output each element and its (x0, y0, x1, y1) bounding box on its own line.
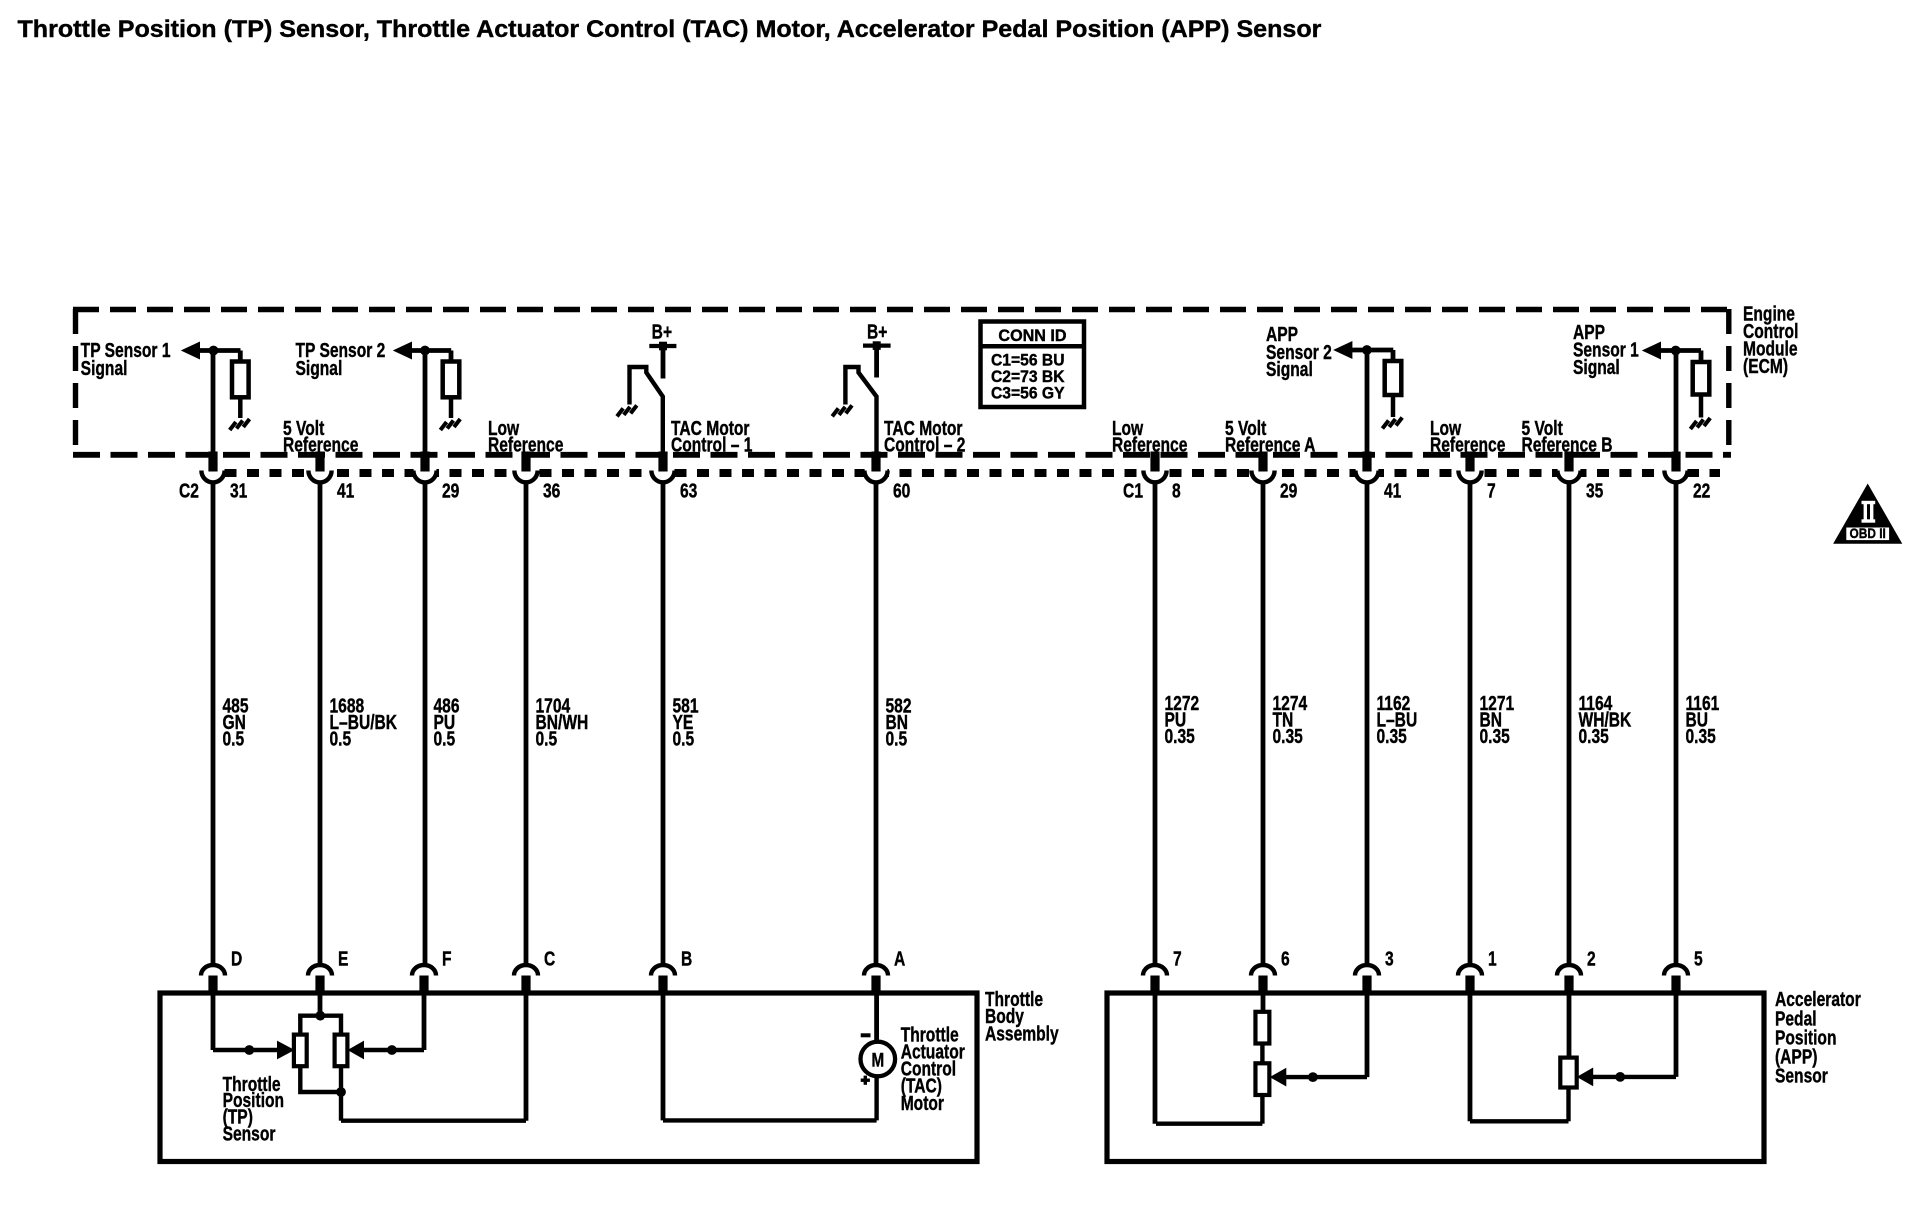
ECM pin 8 connector terminal (1143, 452, 1166, 483)
TP pot wiper arrow left-side (278, 1042, 294, 1059)
ECM net label Low Reference (488, 417, 563, 456)
ECM net label 5 Volt Reference B (1521, 417, 1612, 456)
ground symbol APP2 (1382, 418, 1402, 429)
svg-text:M: M (871, 1049, 884, 1071)
svg-text:C1: C1 (1123, 479, 1143, 501)
svg-text:Throttle Position (TP) Sensor,: Throttle Position (TP) Sensor, Throttle … (18, 17, 1322, 43)
wire from pin 29 down (423, 484, 428, 965)
svg-text:Assembly: Assembly (985, 1022, 1059, 1044)
TP Sensor 1 Signal label (81, 339, 171, 379)
svg-text:Reference: Reference (488, 433, 563, 455)
component connector pin 5 (1664, 965, 1688, 994)
wire from pin 29 down (1261, 484, 1266, 965)
wire from pin 63 down (661, 484, 666, 965)
Throttle Actuator Control TAC Motor label (901, 1024, 965, 1115)
CONN ID header (998, 326, 1066, 345)
pin letter A (894, 948, 905, 970)
wire A to motor (874, 993, 879, 1043)
component connector pin 2 (1557, 965, 1581, 994)
OBD II symbol (1834, 485, 1901, 544)
pin 29 number label (442, 479, 459, 501)
wire 6 to APP2 pot (1261, 993, 1266, 1013)
pin letter 7 (1173, 948, 1182, 970)
APP2 pot resistor (1255, 1063, 1269, 1095)
connector face dotted line (202, 469, 1720, 477)
pin letter D (231, 948, 242, 970)
APP2 series resistor (1255, 1012, 1269, 1044)
CONN ID rows (991, 351, 1065, 402)
APP2 pot wiper arrow (1271, 1069, 1286, 1086)
APP1 pot resistor (1560, 1058, 1576, 1088)
junction dot APP1 wiper (1615, 1072, 1625, 1082)
TP pot left resistor (294, 1035, 307, 1067)
ECM pin 29 connector terminal (413, 452, 436, 483)
pin letter 1 (1488, 948, 1497, 970)
TP Sensor 1 signal wire (199, 351, 241, 363)
ECM pin 36 connector terminal (514, 452, 537, 483)
svg-text:0.35: 0.35 (1272, 725, 1302, 747)
pin letter C (544, 948, 555, 970)
Throttle Body Assembly box (160, 993, 977, 1162)
svg-text:0.5: 0.5 (223, 728, 245, 750)
svg-text:F: F (442, 948, 452, 970)
svg-text:Sensor: Sensor (1775, 1065, 1828, 1087)
TAC1 driver switch (630, 367, 663, 453)
svg-text:3: 3 (1385, 948, 1394, 970)
svg-text:0.5: 0.5 (434, 728, 456, 750)
wire 5 to APP1 wiper (1593, 993, 1676, 1077)
component connector pin 3 (1355, 965, 1379, 994)
svg-text:63: 63 (680, 479, 697, 501)
svg-text:Control – 2: Control – 2 (884, 433, 965, 455)
ground symbol TAC2 switch (832, 405, 852, 416)
TP Sensor 1 junction dot (209, 346, 219, 356)
ECM pull-up resistor APP2 (1385, 361, 1402, 395)
svg-text:Signal: Signal (81, 357, 128, 379)
wire F to TP pot (362, 993, 424, 1050)
ECM pin 35 connector terminal (1557, 452, 1580, 483)
B+ stub wire TAC1 (661, 346, 666, 379)
connector C1 label (1123, 479, 1143, 501)
APP Sensor 2 junction dot (1362, 345, 1372, 355)
wire from pin 7 down (1468, 484, 1473, 965)
wire from pin 41 down (318, 484, 323, 965)
wire label 581 YE (673, 694, 699, 750)
svg-text:E: E (338, 948, 348, 970)
junction dot TP pot bottom (336, 1087, 346, 1097)
component connector pin D (201, 965, 225, 994)
wire from pin 8 down (1153, 484, 1158, 965)
pin 29 number label (1280, 479, 1297, 501)
svg-text:60: 60 (893, 479, 910, 501)
wire label 485 GN (223, 694, 249, 750)
ECM pull-up resistor at pin 31 (232, 362, 249, 398)
svg-text:5: 5 (1694, 948, 1703, 970)
APP Sensor 2 Signal label (1266, 323, 1332, 381)
ECM pin 63 connector terminal (651, 452, 674, 483)
ground symbol TP2 (440, 419, 460, 430)
svg-text:0.35: 0.35 (1686, 725, 1716, 747)
svg-text:1: 1 (1488, 948, 1497, 970)
ground symbol TP1 (230, 419, 250, 430)
svg-text:31: 31 (230, 479, 247, 501)
B+ label TAC1 (652, 321, 672, 343)
svg-text:CONN ID: CONN ID (998, 326, 1066, 345)
pin letter 3 (1385, 948, 1394, 970)
svg-text:Reference A: Reference A (1225, 433, 1315, 455)
TP Sensor 2 Signal label (296, 339, 386, 379)
svg-text:2: 2 (1587, 948, 1596, 970)
wire motor to B (663, 1076, 877, 1121)
title text (18, 17, 1322, 43)
pin letter 2 (1587, 948, 1596, 970)
ECM pin 60 connector terminal (864, 452, 887, 483)
wire pin29 internal (423, 351, 428, 454)
pin 8 number label (1172, 479, 1181, 501)
wire pin41C1 internal (1365, 350, 1370, 453)
ECM net label TAC Motor Control – 1 (671, 417, 752, 456)
pin letter F (442, 948, 452, 970)
svg-text:Signal: Signal (296, 357, 343, 379)
wire label 1271 BN (1479, 692, 1514, 748)
TP Sensor 2 signal arrow (394, 342, 412, 358)
component connector pin C (514, 965, 538, 994)
wire from pin 22 down (1674, 484, 1679, 965)
APP Sensor 2 signal wire (1351, 350, 1393, 362)
ECM net label 5 Volt Reference (283, 417, 358, 456)
junction dot F branch (387, 1045, 397, 1055)
CONN ID table box (981, 322, 1085, 408)
svg-text:0.35: 0.35 (1165, 725, 1195, 747)
component connector pin 6 (1251, 965, 1275, 994)
pin letter 5 (1694, 948, 1703, 970)
svg-text:0.5: 0.5 (673, 728, 695, 750)
component connector pin 1 (1458, 965, 1482, 994)
ECM pin 22 connector terminal (1664, 452, 1687, 483)
svg-text:35: 35 (1586, 479, 1603, 501)
ECM pull-up resistor at pin 29 (443, 362, 460, 398)
svg-text:Signal: Signal (1573, 356, 1620, 378)
Throttle Position TP Sensor label (223, 1073, 284, 1145)
TAC2 driver switch (845, 367, 876, 453)
ECM pin 31 connector terminal (201, 452, 224, 483)
resistor ground wire (1391, 395, 1396, 418)
ECM net label Low Reference (1112, 417, 1187, 456)
ground symbol TAC1 switch (617, 405, 637, 416)
component connector pin B (651, 965, 675, 994)
wire from pin 36 down (524, 484, 529, 965)
motor minus sign (861, 1033, 871, 1037)
wire label 486 PU (434, 694, 460, 750)
svg-text:B+: B+ (652, 321, 672, 343)
ECM module dashed box border (73, 309, 1731, 455)
svg-text:Reference: Reference (1430, 433, 1505, 455)
svg-text:OBD II: OBD II (1850, 525, 1886, 541)
wire 1 down (1468, 993, 1473, 1121)
TAC motor M circle (861, 1042, 896, 1077)
svg-text:C3=56 GY: C3=56 GY (991, 384, 1065, 402)
svg-text:7: 7 (1487, 479, 1496, 501)
ground symbol APP1 (1690, 418, 1710, 429)
svg-text:Reference: Reference (283, 433, 358, 455)
junction dot APP2 wiper (1308, 1072, 1318, 1082)
svg-text:C: C (544, 948, 555, 970)
pin letter E (338, 948, 348, 970)
Throttle Body Assembly label (985, 988, 1059, 1045)
B+ stub wire TAC2 (874, 346, 879, 378)
wire 3 to APP2 wiper (1286, 993, 1367, 1077)
svg-text:Reference: Reference (1112, 433, 1187, 455)
pin letter B (681, 948, 692, 970)
svg-text:36: 36 (543, 479, 560, 501)
svg-text:6: 6 (1281, 948, 1290, 970)
svg-text:0.5: 0.5 (536, 728, 558, 750)
wire 7 down (1153, 993, 1158, 1124)
ECM pin 41 connector terminal (308, 452, 331, 483)
pin letter 6 (1281, 948, 1290, 970)
TP pot wiper arrow right-side (349, 1042, 364, 1059)
wire 2 to APP1 pot (1567, 993, 1572, 1058)
ECM pin 41 connector terminal (1355, 452, 1378, 483)
ECM net label TAC Motor Control – 2 (884, 417, 965, 456)
component connector pin E (308, 965, 332, 994)
pin 35 number label (1586, 479, 1603, 501)
svg-text:29: 29 (1280, 479, 1297, 501)
TP pot top loop wire (300, 1016, 341, 1036)
TP pot bottom loop wire (300, 1066, 341, 1093)
B+ label TAC2 (867, 321, 887, 343)
svg-text:A: A (894, 948, 905, 970)
pin 41 number label (337, 479, 354, 501)
ECM pin 29 connector terminal (1251, 452, 1274, 483)
APP Sensor 1 junction dot (1671, 346, 1681, 356)
svg-text:Control – 1: Control – 1 (671, 433, 752, 455)
pin 22 number label (1693, 479, 1710, 501)
ECM label Engine Control Module (1743, 302, 1798, 377)
wire TP pot bottom to C (341, 1092, 526, 1121)
component connector pin 7 (1143, 965, 1167, 994)
svg-text:Signal: Signal (1266, 358, 1313, 380)
resistor ground wire (449, 397, 454, 418)
pin 60 number label (893, 479, 910, 501)
wire label 1688 L–BU/BK (330, 694, 398, 750)
wire label 1164 WH/BK (1579, 692, 1632, 748)
resistor ground wire (238, 397, 243, 418)
svg-text:(ECM): (ECM) (1743, 355, 1788, 377)
svg-text:Reference B: Reference B (1521, 433, 1612, 455)
svg-text:41: 41 (1384, 479, 1401, 501)
svg-text:B+: B+ (867, 321, 887, 343)
wire label 1272 PU (1165, 692, 1200, 748)
B+ terminal bar TAC2 (863, 341, 891, 350)
svg-text:Motor: Motor (901, 1092, 944, 1114)
svg-text:Sensor: Sensor (223, 1123, 276, 1145)
wire B down (661, 993, 666, 1120)
wire from pin 41 down (1365, 484, 1370, 965)
APP Sensor 1 signal wire (1660, 351, 1701, 363)
ECM net label Low Reference (1430, 417, 1505, 456)
component connector pin F (412, 965, 436, 994)
APP Sensor 1 Signal label (1573, 321, 1639, 378)
pin 7 number label (1487, 479, 1496, 501)
wire pin31 internal (211, 351, 216, 454)
wire APP2 pot bottom to 7 (1156, 1095, 1262, 1124)
wire pin22 internal (1674, 351, 1679, 454)
wire from pin 35 down (1567, 484, 1572, 965)
svg-text:C2: C2 (179, 479, 199, 501)
APP1 pot wiper arrow (1578, 1068, 1593, 1085)
wire from pin 60 down (874, 484, 879, 965)
resistor ground wire (1699, 394, 1704, 418)
Accelerator Pedal Position APP Sensor box (1107, 993, 1764, 1162)
svg-text:7: 7 (1173, 948, 1182, 970)
ECM pin 7 connector terminal (1458, 452, 1481, 483)
pin 63 number label (680, 479, 697, 501)
junction dot D branch (244, 1045, 254, 1055)
wire C down (524, 993, 529, 1121)
ECM net label 5 Volt Reference A (1225, 417, 1315, 456)
svg-text:0.35: 0.35 (1479, 725, 1509, 747)
wire label 1161 BU (1686, 692, 1720, 748)
wire label 582 BN (886, 694, 912, 750)
wire label 1704 BN/WH (536, 694, 589, 750)
svg-text:22: 22 (1693, 479, 1710, 501)
TP Sensor 2 junction dot (420, 346, 430, 356)
pin 31 number label (230, 479, 247, 501)
pin 41 number label (1384, 479, 1401, 501)
TP pot right resistor (335, 1035, 348, 1067)
wire label 1162 L–BU (1376, 692, 1417, 748)
wire E to TP pot top (318, 993, 323, 1017)
ECM pull-up resistor APP1 (1693, 362, 1710, 395)
component connector pin A (864, 965, 888, 994)
B+ terminal bar TAC1 (649, 342, 676, 351)
connector C2 label (179, 479, 199, 501)
TP Sensor 2 signal wire (411, 351, 451, 363)
wire from pin 31 down (211, 484, 216, 965)
TP Sensor 1 signal arrow (182, 342, 200, 358)
svg-text:29: 29 (442, 479, 459, 501)
svg-text:0.35: 0.35 (1376, 725, 1406, 747)
svg-text:0.5: 0.5 (330, 728, 352, 750)
pin 36 number label (543, 479, 560, 501)
svg-text:41: 41 (337, 479, 354, 501)
svg-text:0.35: 0.35 (1579, 725, 1609, 747)
wire APP1 pot bottom to 1 (1470, 1087, 1569, 1121)
motor plus sign (861, 1076, 870, 1085)
svg-text:D: D (231, 948, 242, 970)
wire label 1274 TN (1272, 692, 1307, 748)
wire D to TP pot (213, 993, 278, 1050)
APP Sensor 2 signal arrow (1334, 342, 1352, 358)
APP2 pot mid wire (1260, 1043, 1264, 1064)
svg-text:0.5: 0.5 (886, 728, 908, 750)
junction dot E top (315, 1011, 325, 1021)
APP Sensor 1 signal arrow (1643, 342, 1661, 358)
svg-text:B: B (681, 948, 692, 970)
svg-text:8: 8 (1172, 479, 1181, 501)
APP Sensor box label (1775, 988, 1861, 1087)
